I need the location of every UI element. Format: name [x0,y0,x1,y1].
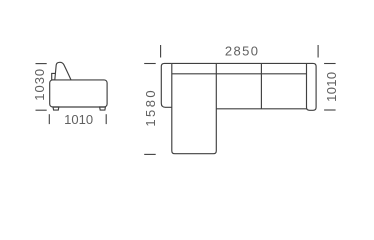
side view: body [50,80,107,107]
dim 1030 bottom tick [36,109,47,111]
top view: backrest front line [172,73,307,75]
dim 2850 left tick [160,45,162,58]
svg-text:1030: 1030 [32,68,47,101]
dim 2850 right tick [317,45,319,58]
top view: body front edge [216,108,306,110]
dim 1580 top tick [144,63,156,65]
dim 1010 side left tick [48,114,50,124]
svg-text:2850: 2850 [225,44,260,59]
top view: right armrest [307,63,317,110]
top view: body top edge [172,62,307,64]
side view: backrest frame step [52,73,56,80]
top view: seat divider [260,63,262,108]
svg-text:1010: 1010 [64,112,93,127]
side view: left foot [53,107,59,110]
dim 1010 side right tick [105,114,107,124]
dim 1030 top tick [36,63,47,65]
side view: backrest cushion [55,62,71,80]
dim 1010 right top tick [324,63,336,65]
dim 1580 bottom tick [144,153,156,155]
dim 1010 right bottom tick [324,109,336,111]
svg-text:1580: 1580 [143,88,158,127]
side view: right foot [100,107,106,110]
top view: left armrest [161,63,172,107]
top view: chaise longue [172,63,217,153]
svg-text:1010: 1010 [324,72,339,102]
